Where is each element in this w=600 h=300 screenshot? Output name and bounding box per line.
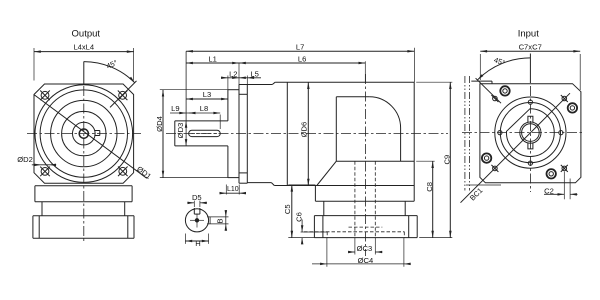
svg-text:L8: L8 [200,104,208,113]
svg-text:C7xC7: C7xC7 [519,42,542,51]
svg-text:L3: L3 [203,90,211,99]
svg-text:ØD2: ØD2 [17,155,33,164]
svg-text:C5: C5 [283,204,292,214]
svg-text:L6: L6 [298,54,306,63]
svg-text:C8: C8 [425,182,434,192]
svg-text:L4xL4: L4xL4 [73,42,94,51]
svg-text:ØD3: ØD3 [176,123,185,139]
svg-text:L1: L1 [208,54,216,63]
svg-text:ØC3: ØC3 [357,244,373,253]
svg-text:ØD6: ØD6 [300,122,309,138]
svg-text:Input: Input [518,29,539,40]
svg-text:Output: Output [72,29,101,40]
svg-text:C9: C9 [442,155,451,165]
svg-text:ØC4: ØC4 [358,256,374,265]
svg-text:C2: C2 [544,186,554,195]
svg-text:C6: C6 [294,212,303,222]
svg-text:D5: D5 [192,193,202,202]
svg-text:B: B [215,218,224,223]
svg-text:L10: L10 [227,186,239,193]
svg-text:L7: L7 [296,42,304,51]
svg-text:L5: L5 [250,69,258,78]
svg-text:L9: L9 [171,104,179,113]
svg-text:H: H [195,239,200,248]
svg-text:ØD4: ØD4 [155,116,164,132]
